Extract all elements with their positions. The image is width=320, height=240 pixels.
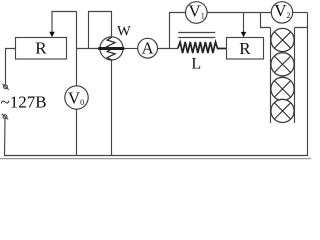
svg-text:W: W — [117, 23, 131, 39]
svg-text:R: R — [239, 39, 251, 58]
svg-text:L: L — [191, 56, 201, 73]
svg-text:R: R — [35, 39, 47, 58]
svg-text:~127В: ~127В — [1, 93, 47, 112]
svg-text:A: A — [142, 39, 154, 58]
